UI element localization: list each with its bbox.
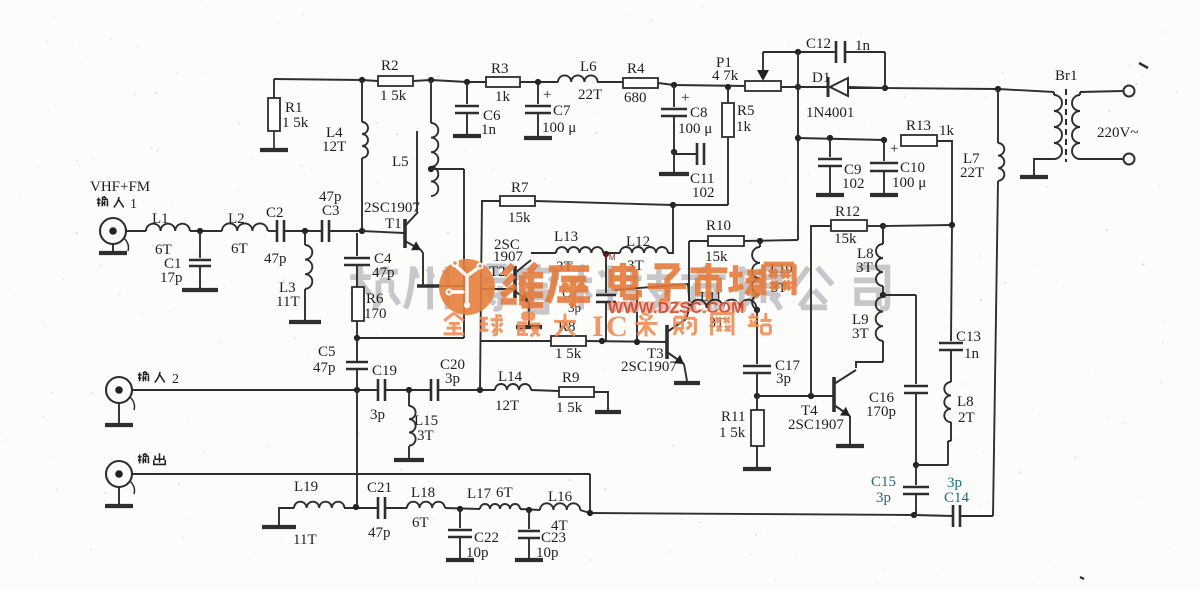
resistor R3 xyxy=(486,77,520,87)
wire: C3 to T1 base xyxy=(329,230,362,232)
inductor L6 xyxy=(558,75,598,82)
svg-text:2T: 2T xyxy=(958,410,975,426)
svg-text:R4: R4 xyxy=(627,61,645,77)
svg-text:11T: 11T xyxy=(276,294,300,310)
svg-text:3T: 3T xyxy=(417,428,434,444)
capacitor C13 xyxy=(939,342,963,345)
svg-text:R6: R6 xyxy=(366,291,384,307)
wire: R12 left to T4 base xyxy=(811,226,831,396)
wire: T1 emitter xyxy=(421,250,423,286)
node: T4 base node xyxy=(754,393,760,399)
svg-text:L2: L2 xyxy=(228,211,245,227)
svg-text:C14: C14 xyxy=(944,490,970,506)
svg-text:C2: C2 xyxy=(266,205,284,221)
svg-text:1 5k: 1 5k xyxy=(556,400,583,416)
wire: L8 output to C16 node xyxy=(948,440,951,442)
capacitor C18 xyxy=(605,254,607,293)
svg-text:100 μ: 100 μ xyxy=(892,175,926,191)
svg-text:1k: 1k xyxy=(736,119,752,135)
wire: C19 to C20 xyxy=(385,389,430,391)
svg-text:170p: 170p xyxy=(866,404,896,420)
wire: top supply rail xyxy=(274,79,378,81)
ground for R1 xyxy=(273,131,275,148)
resistor R7 xyxy=(500,196,535,206)
ground for C9 xyxy=(816,193,844,197)
wire: L17 to L16 xyxy=(520,509,540,510)
ground for C6 xyxy=(453,134,481,138)
svg-text:R13: R13 xyxy=(906,118,931,134)
inductor L10 xyxy=(759,241,761,247)
svg-text:1 5k: 1 5k xyxy=(719,425,746,441)
wire: C20 to L14 xyxy=(438,389,495,391)
svg-text:15k: 15k xyxy=(705,249,728,265)
wire: T4 collector xyxy=(856,362,883,368)
wire: bottom feedback line xyxy=(590,513,914,515)
wire: C2 to C3 xyxy=(284,230,322,232)
svg-text:47p: 47p xyxy=(368,525,391,541)
svg-text:C8: C8 xyxy=(690,105,708,121)
watermark slogan text xyxy=(444,310,772,343)
svg-text:3p: 3p xyxy=(445,371,460,387)
svg-text:C21: C21 xyxy=(367,480,392,496)
potentiometer P1 xyxy=(745,81,781,91)
wire: C5 chain down xyxy=(356,390,358,507)
svg-text:1 5k: 1 5k xyxy=(282,115,309,131)
wire: regulated node line xyxy=(797,87,799,138)
svg-text:R11: R11 xyxy=(721,409,745,425)
capacitor C21 xyxy=(377,497,380,519)
resistor R2 xyxy=(378,76,413,86)
svg-text:100 μ: 100 μ xyxy=(542,120,576,136)
svg-text:R9: R9 xyxy=(562,370,580,386)
svg-text:C19: C19 xyxy=(372,363,397,379)
resistor R11 xyxy=(756,396,758,410)
svg-text:I: I xyxy=(592,310,604,343)
capacitor C8 xyxy=(673,85,675,107)
svg-text:Br1: Br1 xyxy=(1055,68,1078,84)
ground for BNC output xyxy=(118,487,120,505)
svg-text:4 7k: 4 7k xyxy=(712,68,739,84)
svg-text:1N4001: 1N4001 xyxy=(806,105,854,121)
svg-text:1k: 1k xyxy=(495,89,511,105)
svg-text:1: 1 xyxy=(130,197,137,212)
svg-text:R2: R2 xyxy=(381,58,399,74)
svg-text:220V~: 220V~ xyxy=(1097,125,1138,141)
node: L11 to C17 junction xyxy=(754,307,760,313)
svg-text:R3: R3 xyxy=(491,61,509,77)
inductor L3 xyxy=(304,231,306,245)
ground for BNC input 2 xyxy=(118,403,120,424)
inductor L11 xyxy=(688,284,690,308)
svg-text:100 μ: 100 μ xyxy=(678,121,712,137)
svg-text:11T: 11T xyxy=(293,532,317,548)
svg-text:680: 680 xyxy=(624,90,647,106)
svg-text:T1: T1 xyxy=(385,216,402,232)
svg-text:2SC1907: 2SC1907 xyxy=(621,359,677,375)
svg-text:102: 102 xyxy=(842,176,865,192)
inductor L9 xyxy=(876,297,883,341)
ground for L3 xyxy=(289,320,321,324)
capacitor C12 xyxy=(835,41,838,63)
mark top right xyxy=(1139,63,1148,68)
svg-text:170: 170 xyxy=(364,306,387,322)
wire: T1 collector xyxy=(416,203,418,212)
wire: C18 node to L11 xyxy=(615,284,688,290)
svg-text:C22: C22 xyxy=(474,530,499,546)
svg-text:D1: D1 xyxy=(812,70,830,86)
svg-text:1n: 1n xyxy=(481,122,497,138)
wire: R13 node down to C13 xyxy=(951,225,952,341)
svg-text:15k: 15k xyxy=(508,210,531,226)
capacitor C11 xyxy=(727,137,729,154)
ground for T3 emitter xyxy=(684,364,687,381)
ground for Br1 primary xyxy=(1034,159,1054,176)
svg-text:12T: 12T xyxy=(495,398,519,414)
inductor L5 xyxy=(430,80,432,123)
svg-text:1k: 1k xyxy=(939,123,955,139)
wire: R5 bottom to R7 node xyxy=(727,154,729,205)
inductor L17 xyxy=(480,504,520,509)
watermark logo circle xyxy=(439,259,495,315)
wire: C11 to C8 node xyxy=(674,153,697,155)
ground for C7 xyxy=(524,136,552,140)
svg-text:3p: 3p xyxy=(876,490,891,506)
wire: R7 left bias line xyxy=(481,201,500,289)
wire: R10 right to P1 line xyxy=(744,240,796,241)
svg-text:6T: 6T xyxy=(231,241,248,257)
terminal 220V top xyxy=(1124,86,1135,97)
svg-text:3T: 3T xyxy=(856,260,873,276)
resistor R13 xyxy=(901,135,937,146)
svg-text:+: + xyxy=(543,87,551,103)
svg-text:12T: 12T xyxy=(322,139,346,155)
svg-text:C3: C3 xyxy=(322,203,340,219)
wire: L14 to R9 xyxy=(531,390,559,391)
capacitor C2 xyxy=(276,220,279,242)
svg-text:47p: 47p xyxy=(264,251,287,267)
wire: R13 right down xyxy=(937,141,952,225)
inductor L1 xyxy=(146,224,190,231)
svg-text:R10: R10 xyxy=(706,218,731,234)
watermark url text xyxy=(608,299,747,317)
svg-text:L18: L18 xyxy=(411,485,435,501)
node: rail junctions xyxy=(359,77,365,83)
capacitor C14 xyxy=(952,505,955,527)
ground for T4 emitter xyxy=(849,416,851,444)
capacitor C17 xyxy=(756,310,758,364)
diode D1 xyxy=(798,86,828,88)
inductor L13 xyxy=(556,247,603,253)
inductor L8 xyxy=(882,226,884,244)
svg-text:C10: C10 xyxy=(900,160,925,176)
wire: L5 tap feedback down xyxy=(463,169,465,338)
ground for R11 xyxy=(756,446,758,468)
capacitor C23 xyxy=(528,510,530,529)
capacitor C3 xyxy=(321,220,324,242)
svg-text:6T: 6T xyxy=(496,485,513,501)
svg-text:VHF+FM: VHF+FM xyxy=(90,179,150,195)
capacitor C10 xyxy=(883,140,885,161)
wire: L2 to C2 xyxy=(268,230,277,232)
capacitor C9 xyxy=(829,138,831,157)
ground for C8 xyxy=(673,152,675,173)
resistor R1 xyxy=(273,79,275,98)
wire: L1 to C2 xyxy=(190,230,222,232)
svg-text:L5: L5 xyxy=(392,154,409,170)
svg-text:2SC1907: 2SC1907 xyxy=(364,200,420,216)
watermark big orange text xyxy=(501,263,794,307)
label input 2 xyxy=(138,372,149,382)
node: L8-L9 junction xyxy=(880,292,886,298)
transistor T3 xyxy=(665,325,669,359)
svg-text:L13: L13 xyxy=(554,229,578,245)
svg-text:+: + xyxy=(681,90,689,106)
inductor L16 xyxy=(540,503,580,510)
ground for C10 xyxy=(870,193,898,197)
wire: R12 right node xyxy=(867,225,883,227)
node: R6 bottom junction xyxy=(356,321,358,338)
wire: output line xyxy=(132,473,590,475)
connector BNC input 1 xyxy=(100,218,126,244)
connector BNC output xyxy=(106,461,132,487)
svg-text:102: 102 xyxy=(692,185,715,201)
svg-text:1n: 1n xyxy=(964,346,980,362)
capacitor C4 xyxy=(356,233,358,256)
svg-text:+: + xyxy=(890,141,898,157)
wire: L19 to C21 xyxy=(344,507,378,509)
capacitor C16 xyxy=(915,295,917,384)
ground for BNC input 1 xyxy=(112,244,114,252)
resistor R4 xyxy=(623,78,658,88)
transistor T2 xyxy=(513,266,517,298)
wire: T2 collector to L13 xyxy=(531,252,556,254)
svg-text:1 5k: 1 5k xyxy=(555,346,582,362)
ground for T2 emitter xyxy=(528,302,530,325)
inductor L2 xyxy=(222,223,268,231)
wire: T3 collector to R10 xyxy=(686,241,689,319)
transistor T4 xyxy=(832,377,836,412)
wire: R8 line to T3 base xyxy=(481,340,551,342)
ground for R9 xyxy=(595,410,621,414)
ground for L19 xyxy=(279,508,294,526)
svg-text:C5: C5 xyxy=(318,344,336,360)
svg-text:L14: L14 xyxy=(498,369,523,385)
inductor L8 output xyxy=(944,382,951,422)
inductor L15 xyxy=(408,390,410,406)
wire: C21 to L18 xyxy=(385,507,407,509)
node: C16 bottom junction xyxy=(913,462,919,468)
resistor R9 xyxy=(559,387,594,397)
ground for C22 xyxy=(446,558,474,562)
resistor R5 xyxy=(727,87,729,103)
svg-text:L17: L17 xyxy=(467,486,492,502)
svg-text:C13: C13 xyxy=(956,329,981,345)
wire: P1 wiper to C12 xyxy=(763,51,836,53)
transistor T1 xyxy=(403,219,407,248)
mark bottom right dot xyxy=(1080,577,1084,579)
svg-text:C: C xyxy=(606,310,628,343)
svg-text:L1: L1 xyxy=(152,211,169,227)
watermark gray company text xyxy=(350,264,887,312)
svg-text:3p: 3p xyxy=(776,371,791,387)
capacitor C20 xyxy=(430,379,433,401)
inductor L7 xyxy=(997,89,999,143)
capacitor C15 xyxy=(915,465,917,485)
inductor L4 xyxy=(361,80,363,122)
resistor R10 xyxy=(689,240,708,242)
wire: R9 to ground xyxy=(594,392,608,411)
capacitor C1 xyxy=(199,231,201,258)
svg-text:17p: 17p xyxy=(160,270,183,286)
capacitor C19 xyxy=(377,379,380,401)
transformer Br1 secondary xyxy=(1079,92,1081,95)
capacitor C5 xyxy=(356,338,358,361)
svg-text:22T: 22T xyxy=(578,87,602,103)
svg-text:L15: L15 xyxy=(414,413,438,429)
capacitor C6 xyxy=(466,82,468,104)
wire: input 1 to L1 xyxy=(126,230,146,232)
wire: R7 right to node xyxy=(535,201,673,205)
svg-text:3T: 3T xyxy=(852,326,869,342)
svg-text:L12: L12 xyxy=(626,234,650,250)
svg-text:47p: 47p xyxy=(372,265,395,281)
svg-text:2SC1907: 2SC1907 xyxy=(788,417,844,433)
wire: L16 to bottom line xyxy=(580,510,590,513)
wire: input 2 line xyxy=(132,389,377,391)
node: L5 tap xyxy=(428,166,434,172)
inductor L19 xyxy=(294,502,344,508)
svg-text:R7: R7 xyxy=(511,180,529,196)
label output xyxy=(138,454,149,464)
transformer Br1 primary xyxy=(1053,92,1055,95)
transformer core xyxy=(1065,89,1067,162)
svg-text:1907: 1907 xyxy=(493,249,524,265)
svg-text:L6: L6 xyxy=(580,59,597,75)
wire: L18 to L17 xyxy=(445,508,480,509)
resistor R8 xyxy=(551,336,586,346)
wire: C12 to rail xyxy=(845,51,885,53)
svg-text:R5: R5 xyxy=(737,103,755,119)
resistor R12 xyxy=(831,220,867,231)
ground for C23 xyxy=(515,558,543,562)
ground for L15 xyxy=(394,458,424,462)
svg-text:C12: C12 xyxy=(806,36,831,52)
svg-text:47p: 47p xyxy=(313,360,336,376)
svg-text:L16: L16 xyxy=(548,489,573,505)
resistor R6 xyxy=(352,287,364,321)
svg-text:C15: C15 xyxy=(871,474,896,490)
capacitor C7 xyxy=(537,82,539,104)
wire: secondary to terminals xyxy=(1080,91,1123,92)
inductor L18 xyxy=(407,502,445,508)
svg-text:3p: 3p xyxy=(370,407,385,423)
inductor L14 xyxy=(495,384,531,390)
svg-text:R12: R12 xyxy=(835,204,860,220)
inductor L12 xyxy=(620,247,668,253)
svg-text:L8: L8 xyxy=(957,394,974,410)
connector BNC input 2 xyxy=(106,377,132,403)
capacitor C22 xyxy=(459,509,461,528)
svg-text:TM: TM xyxy=(604,253,616,262)
wire: L12 to R5 node xyxy=(668,205,673,253)
svg-text:6T: 6T xyxy=(412,515,429,531)
svg-text:2: 2 xyxy=(172,372,179,387)
ground for C1 xyxy=(182,288,218,292)
svg-text:4T: 4T xyxy=(551,518,568,534)
svg-text:22T: 22T xyxy=(960,165,984,181)
svg-text:L19: L19 xyxy=(294,479,318,495)
svg-text:R1: R1 xyxy=(285,100,303,116)
svg-text:1 5k: 1 5k xyxy=(380,88,407,104)
svg-text:C7: C7 xyxy=(553,103,571,119)
svg-text:3p: 3p xyxy=(947,475,962,491)
node: L13-L12 junction xyxy=(603,252,620,254)
terminal 220V bottom xyxy=(1124,154,1135,165)
svg-text:15k: 15k xyxy=(834,231,857,247)
